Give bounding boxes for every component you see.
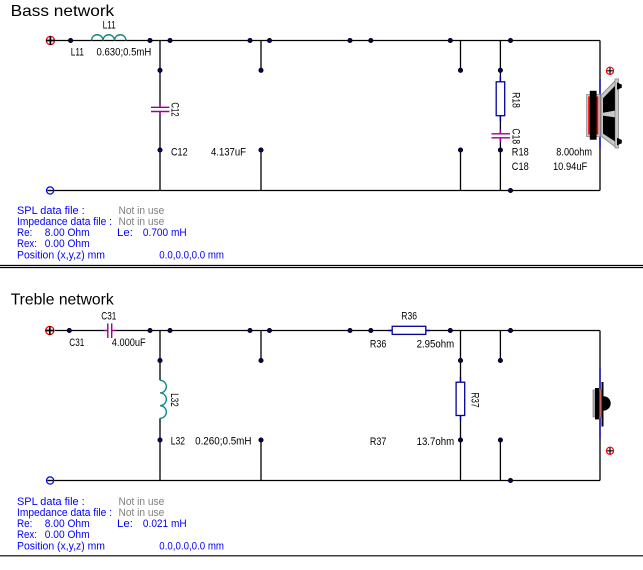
svg-text:C31: C31 bbox=[69, 337, 84, 349]
svg-text:L11: L11 bbox=[71, 47, 84, 59]
svg-text:C18: C18 bbox=[509, 128, 521, 144]
svg-text:0.00 Ohm: 0.00 Ohm bbox=[45, 238, 90, 250]
svg-text:0.0,0.0,0.0 mm: 0.0,0.0,0.0 mm bbox=[159, 250, 224, 262]
svg-text:R37: R37 bbox=[469, 393, 481, 408]
svg-text:0.00 Ohm: 0.00 Ohm bbox=[45, 529, 90, 541]
svg-text:8.00ohm: 8.00ohm bbox=[556, 146, 592, 158]
svg-text:0.021 mH: 0.021 mH bbox=[143, 518, 187, 530]
svg-text:Position (x,y,z) mm: Position (x,y,z) mm bbox=[17, 541, 105, 553]
svg-text:C12: C12 bbox=[168, 102, 180, 116]
svg-text:0.700 mH: 0.700 mH bbox=[143, 227, 187, 239]
svg-text:R36: R36 bbox=[401, 311, 417, 323]
svg-text:Rex:: Rex: bbox=[17, 238, 37, 250]
svg-text:4.000uF: 4.000uF bbox=[112, 337, 146, 349]
svg-text:2.95ohm: 2.95ohm bbox=[417, 339, 455, 351]
svg-text:Position (x,y,z) mm: Position (x,y,z) mm bbox=[17, 250, 105, 262]
svg-text:R18: R18 bbox=[509, 92, 521, 108]
svg-text:10.94uF: 10.94uF bbox=[553, 161, 587, 173]
svg-text:Le:: Le: bbox=[117, 518, 133, 530]
svg-text:4.137uF: 4.137uF bbox=[211, 146, 246, 158]
svg-text:R36: R36 bbox=[370, 339, 387, 351]
svg-text:C31: C31 bbox=[101, 311, 116, 323]
svg-text:L11: L11 bbox=[103, 20, 116, 32]
svg-text:L32: L32 bbox=[168, 393, 180, 406]
svg-text:R18: R18 bbox=[512, 146, 529, 158]
svg-text:R37: R37 bbox=[370, 436, 387, 448]
svg-text:Rex:: Rex: bbox=[17, 529, 37, 541]
svg-text:0.260;0.5mH: 0.260;0.5mH bbox=[195, 436, 251, 448]
svg-text:C18: C18 bbox=[512, 161, 529, 173]
svg-text:Bass network: Bass network bbox=[11, 3, 115, 20]
svg-text:0.0,0.0,0.0 mm: 0.0,0.0,0.0 mm bbox=[159, 541, 224, 553]
svg-text:C12: C12 bbox=[171, 146, 188, 158]
svg-text:Treble network: Treble network bbox=[11, 291, 114, 308]
svg-text:13.7ohm: 13.7ohm bbox=[417, 436, 455, 448]
svg-text:Le:: Le: bbox=[117, 227, 133, 239]
svg-text:0.630;0.5mH: 0.630;0.5mH bbox=[97, 47, 152, 59]
svg-text:L32: L32 bbox=[171, 436, 185, 448]
